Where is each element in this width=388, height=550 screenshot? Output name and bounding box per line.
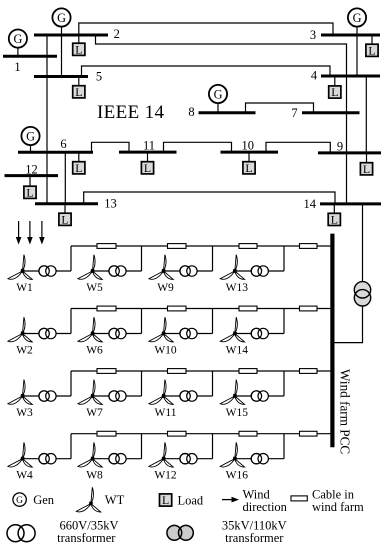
svg-text:W3: W3	[16, 407, 33, 419]
legend 35kV/110kV transformer symbol	[167, 525, 193, 540]
generator G6	[21, 127, 39, 145]
svg-text:10: 10	[241, 139, 254, 153]
transformer W5	[109, 266, 126, 276]
bus 4	[321, 75, 380, 78]
load L13	[59, 212, 71, 226]
svg-text:Gen: Gen	[33, 493, 55, 507]
row1 cable rect 4	[300, 244, 318, 249]
legend cable symbol	[291, 496, 307, 501]
row1 feeder wire	[71, 245, 330, 247]
load L11 stub	[147, 152, 149, 162]
bus 2	[34, 34, 108, 37]
bus 7	[302, 111, 360, 114]
load L4 stub	[334, 76, 336, 87]
svg-text:W10: W10	[154, 345, 177, 357]
bus 6	[18, 151, 93, 154]
svg-text:IEEE 14: IEEE 14	[97, 102, 164, 123]
wind direction arrow 3	[39, 221, 45, 245]
svg-text:W16: W16	[226, 470, 249, 482]
transformer W16	[251, 454, 268, 464]
bus 5	[34, 75, 88, 78]
load L9 stub	[366, 153, 368, 163]
turbine W15	[220, 380, 244, 405]
turbine W14	[220, 317, 244, 342]
row3 feeder wire	[71, 370, 330, 372]
transformer W3	[39, 391, 56, 401]
wire bus5-bus4	[82, 66, 331, 77]
row4 hub wires	[23, 458, 285, 460]
wire PCC transformer to PCC bus	[335, 306, 363, 343]
turbine W4	[8, 442, 32, 467]
transformer W10	[180, 328, 197, 338]
svg-text:13: 13	[104, 197, 117, 211]
load L2	[73, 42, 85, 56]
transformer W4	[39, 454, 56, 464]
row1 cable rect 3	[239, 244, 257, 249]
turbine W6	[78, 317, 102, 342]
wire bus6-bus13	[64, 152, 66, 203]
turbine W10	[149, 317, 173, 342]
wire bus13-bus14	[84, 192, 335, 204]
svg-text:direction: direction	[243, 500, 288, 514]
svg-text:W14: W14	[226, 345, 249, 357]
svg-text:W2: W2	[16, 345, 33, 357]
row4 riser wires	[71, 434, 284, 459]
svg-text:Wind farm PCC: Wind farm PCC	[338, 369, 353, 454]
svg-text:12: 12	[25, 163, 38, 177]
legend WT symbol	[76, 487, 100, 512]
load L4	[329, 85, 341, 99]
row4 feeder wire	[71, 433, 330, 435]
turbine W3	[8, 380, 32, 405]
load L3 stub	[371, 35, 373, 45]
svg-text:W13: W13	[226, 282, 249, 294]
wire bus10-bus9	[266, 142, 330, 153]
generator G8	[209, 85, 227, 103]
load L3	[366, 43, 378, 57]
bus 8	[199, 111, 256, 114]
svg-text:W8: W8	[86, 470, 103, 482]
svg-text:6: 6	[60, 137, 66, 151]
row2 cable rects	[97, 306, 317, 311]
wind direction arrow 1	[16, 221, 22, 245]
load L10	[243, 161, 255, 175]
bus 1	[3, 55, 57, 58]
load L9	[360, 162, 372, 176]
transformer W13	[251, 266, 268, 276]
turbine W2	[8, 317, 32, 342]
transformer W8	[109, 454, 126, 464]
svg-text:W5: W5	[86, 282, 103, 294]
legend Gen symbol	[13, 493, 26, 506]
svg-text:2: 2	[114, 27, 120, 41]
svg-text:W1: W1	[16, 282, 33, 294]
row1 hub wires	[23, 270, 285, 272]
svg-text:G: G	[16, 496, 23, 506]
svg-text:8: 8	[188, 105, 194, 119]
turbine W12	[149, 442, 173, 467]
svg-text:4: 4	[311, 69, 318, 83]
row2 feeder wire	[71, 308, 330, 310]
PCC transformer 35kV/110kV	[354, 282, 370, 306]
svg-text:W11: W11	[155, 407, 177, 419]
row2 riser wires	[71, 309, 284, 334]
turbine W11	[149, 380, 173, 405]
load L10 stub	[248, 152, 250, 162]
generator G1	[9, 29, 27, 47]
bus 9	[318, 151, 381, 154]
row2 hub wires	[23, 333, 285, 335]
bus 13	[35, 202, 98, 205]
legend wind direction arrow	[222, 497, 239, 503]
transformer W7	[109, 391, 126, 401]
wire bus4-bus7-bus9-bus14	[346, 76, 348, 204]
svg-text:5: 5	[96, 70, 102, 84]
row1 cable rect 2	[168, 244, 187, 249]
svg-text:WT: WT	[105, 493, 125, 507]
svg-text:14: 14	[304, 197, 317, 211]
load L14 stub	[333, 204, 335, 214]
load L12	[24, 185, 36, 199]
transformer W12	[180, 454, 197, 464]
wire bus2-bus5 from G2	[61, 26, 63, 77]
wire bus3-bus4 from G3	[356, 26, 358, 76]
svg-text:wind farm: wind farm	[312, 500, 364, 514]
turbine W5	[78, 255, 102, 280]
wire bus14 to PCC transformer	[362, 204, 364, 282]
turbine W8	[78, 442, 102, 467]
wire bus2-bus1-bus5-bus6-bus12-bus13	[46, 35, 48, 204]
turbine W13	[220, 255, 244, 280]
bus 10	[221, 151, 279, 154]
row1 riser W13	[283, 246, 285, 271]
transformer W2	[39, 328, 56, 338]
bus 11	[119, 151, 177, 154]
svg-text:W7: W7	[86, 407, 103, 419]
svg-text:9: 9	[337, 140, 343, 154]
wind direction arrow 2	[27, 221, 33, 245]
svg-text:Load: Load	[178, 493, 204, 507]
bus 3	[321, 34, 380, 37]
load L5	[73, 85, 85, 99]
svg-text:W12: W12	[154, 470, 177, 482]
load L12 stub	[29, 176, 31, 187]
load L2 stub	[78, 35, 80, 44]
legend Load symbol	[160, 493, 172, 507]
transformer W11	[180, 391, 197, 401]
turbine W7	[78, 380, 102, 405]
turbine W1	[8, 255, 32, 280]
transformer W14	[251, 328, 268, 338]
load L14	[328, 213, 340, 227]
wire bus2-bus3	[79, 23, 333, 35]
generator G2	[52, 8, 70, 26]
bus 12	[5, 174, 59, 177]
row3 cable rects	[97, 369, 317, 374]
generator G8 stub	[217, 102, 219, 113]
row3 hub wires	[23, 395, 285, 397]
row3 riser wires	[71, 371, 284, 396]
svg-text:W4: W4	[16, 470, 33, 482]
svg-text:3: 3	[310, 28, 316, 42]
transformer W6	[109, 328, 126, 338]
load L13 stub	[64, 204, 66, 214]
wire bus11-bus10	[164, 142, 232, 152]
svg-text:transformer: transformer	[57, 531, 116, 545]
bus 14	[320, 202, 381, 205]
row1 cable rect 1	[97, 244, 116, 249]
legend 660V/35kV transformer symbol	[7, 525, 35, 542]
svg-text:11: 11	[143, 139, 155, 153]
turbine W9	[149, 255, 173, 280]
generator G1 stub	[17, 47, 19, 56]
row1 riser W5	[141, 246, 143, 271]
wire bus2-bus4	[96, 35, 347, 76]
Wind farm PCC bus	[330, 234, 334, 448]
generator G6 stub	[30, 144, 32, 152]
transformer W9	[180, 266, 197, 276]
wire bus6-bus11	[92, 142, 130, 152]
svg-text:W6: W6	[86, 345, 103, 357]
svg-text:W15: W15	[226, 407, 249, 419]
load L11	[141, 161, 153, 175]
row4 cable rects	[97, 431, 317, 436]
load L6	[73, 161, 85, 175]
load L6 stub	[78, 152, 80, 162]
transformer W1	[39, 266, 56, 276]
generator G3	[348, 8, 366, 26]
svg-text:transformer: transformer	[225, 531, 284, 545]
transformer W15	[251, 391, 268, 401]
wire bus8-bus7	[246, 103, 314, 113]
svg-text:1: 1	[14, 60, 20, 74]
wire bus4-bus9	[365, 76, 367, 153]
row1 riser W9	[212, 246, 214, 271]
load L5 stub	[78, 77, 80, 87]
svg-text:W9: W9	[157, 282, 174, 294]
svg-text:7: 7	[291, 106, 297, 120]
row1 riser W1	[70, 246, 72, 271]
turbine W16	[220, 442, 244, 467]
